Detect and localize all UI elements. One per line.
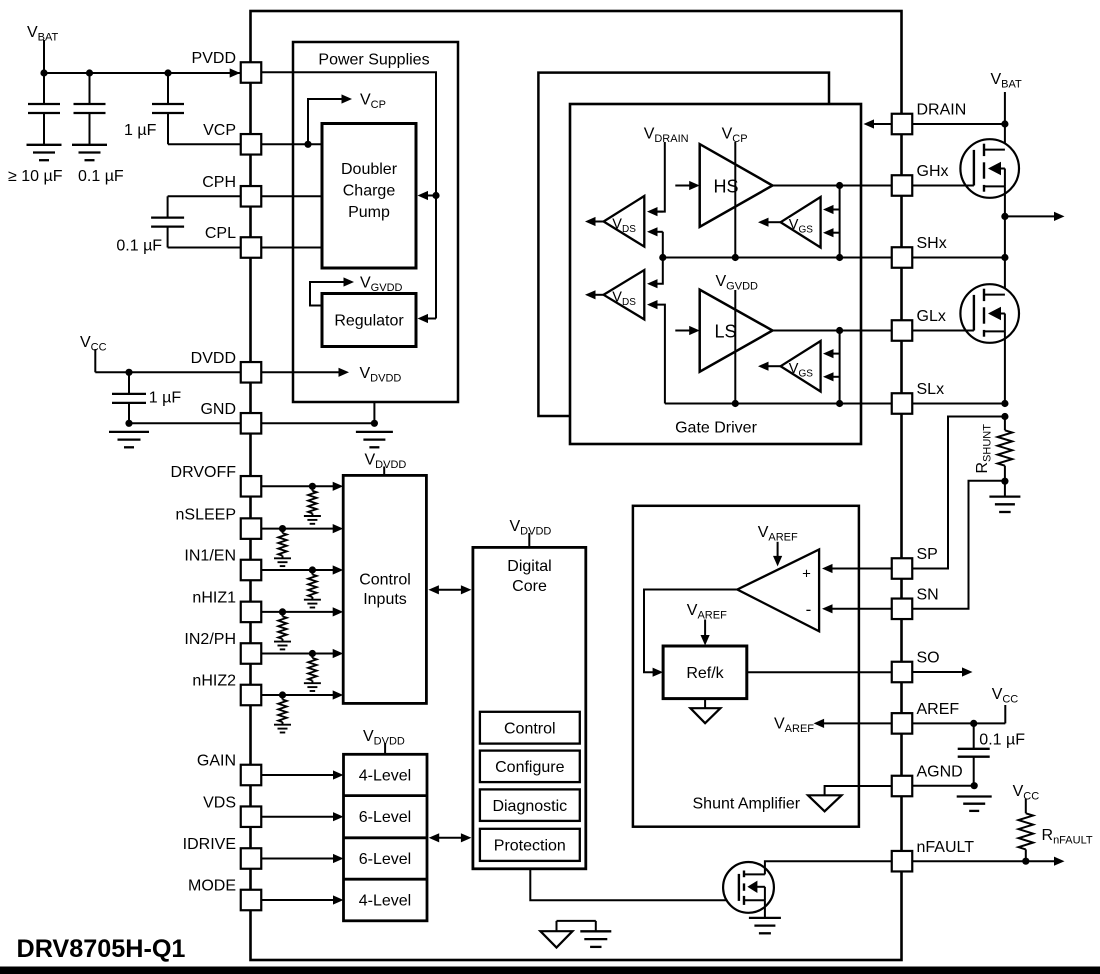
pin GND [241, 413, 262, 434]
wire SP to plus input [832, 568, 892, 570]
node VCC stub [94, 349, 96, 372]
svg-text:HS: HS [714, 177, 739, 197]
Ref/k block [663, 646, 747, 699]
wire GND pin external [129, 422, 240, 424]
wire VBAT to PVDD [44, 72, 240, 74]
svg-text:+: + [802, 566, 811, 583]
svg-text:Protection: Protection [494, 838, 566, 855]
wire VGS HS output arrow [768, 221, 781, 223]
pin nFAULT [892, 851, 913, 872]
junction VBAT-C2 [86, 69, 93, 76]
wire SHx sense vertical [657, 232, 663, 284]
wire HS input arrow [675, 185, 689, 187]
wire VCC to DVDD [95, 371, 240, 373]
pin SO [892, 662, 913, 683]
wire level stack to Digital Core double arrow [437, 837, 462, 839]
svg-text:Control: Control [504, 721, 556, 738]
op-amp HS gate driver [700, 144, 773, 227]
ground DGND triangle [556, 921, 558, 931]
junction RSHUNT bottom [1001, 478, 1008, 485]
wire SHx external [913, 257, 1005, 259]
svg-text:6-Level: 6-Level [359, 809, 411, 826]
pin SN [892, 599, 913, 620]
svg-text:DVDD: DVDD [191, 350, 236, 367]
junction nHIZ1 pulldown [279, 608, 286, 615]
ground Ref/k [704, 699, 706, 709]
resistor pulldown nSLEEP [282, 529, 284, 534]
comparator VGS low-side [781, 341, 821, 392]
wire VDS LS input bottom from SLx [657, 305, 665, 404]
junction DRAIN-VBAT [1001, 120, 1008, 127]
resistor pulldown DRVOFF [311, 486, 313, 491]
wire VDS LS output arrow [594, 294, 604, 296]
wire GLx external [913, 330, 974, 332]
svg-text:SLx: SLx [917, 381, 945, 398]
Protection sub-block [480, 829, 580, 861]
pin CPH [241, 186, 262, 207]
junction PVDD feed [432, 192, 439, 199]
wire SN to minus input [832, 608, 892, 610]
pin PVDD [241, 62, 262, 83]
svg-text:nFAULT: nFAULT [917, 839, 975, 856]
capacitor C5 1uF [128, 372, 130, 394]
wire GLx from LS [773, 330, 892, 332]
pin SP [892, 558, 913, 579]
stub VDVDD to Digital Core [528, 533, 530, 547]
wire VCP into Doubler Charge Pump [262, 143, 323, 145]
Doubler Charge Pump block [322, 124, 416, 269]
junction AGND [971, 782, 978, 789]
stub VBAT right [1004, 92, 1006, 124]
pin AGND [892, 776, 913, 797]
junction SLx [1001, 400, 1008, 407]
junction SLx sense right [836, 400, 843, 407]
svg-text:Gate Driver: Gate Driver [675, 420, 757, 437]
svg-text:GHx: GHx [917, 163, 949, 180]
svg-text:Charge: Charge [343, 183, 396, 200]
svg-text:0.1 µF: 0.1 µF [116, 237, 162, 254]
wire VAREF into op-amp [777, 542, 779, 557]
pin VCP [241, 134, 262, 155]
junction VCC-C5 [125, 369, 132, 376]
wire VDS to level selector [262, 816, 334, 818]
Gate Driver block [570, 104, 861, 444]
pin DRVOFF [241, 476, 262, 497]
wire VDRAIN to VDS monitor [657, 142, 665, 212]
stub VDVDD to level stack [384, 743, 386, 754]
wire VGVDD output arrow [310, 282, 345, 306]
svg-text:0.1 µF: 0.1 µF [78, 168, 124, 185]
junction VBAT-C1 [40, 69, 47, 76]
svg-text:AGND: AGND [917, 764, 963, 781]
pin GHx [892, 175, 913, 196]
junction VCP tap [304, 141, 311, 148]
transistor high-side NMOS [1004, 124, 1006, 150]
junction VBAT-C3 [164, 69, 171, 76]
svg-text:Doubler: Doubler [341, 161, 398, 178]
wire AGND internal [825, 786, 892, 795]
wire DVDD VDVDD arrow [262, 371, 340, 373]
wire VGVDD reference [734, 290, 736, 404]
svg-text:GAIN: GAIN [197, 753, 236, 770]
junction C5-GND [125, 420, 132, 427]
wire CPL into block [262, 247, 323, 249]
svg-text:Inputs: Inputs [363, 591, 407, 608]
junction nFAULT pullup [1022, 858, 1029, 865]
chip boundary DRV8705H-Q1 [251, 11, 902, 960]
comparator VDS low-side [604, 270, 645, 319]
pin MODE [241, 890, 262, 911]
svg-text:4-Level: 4-Level [359, 768, 411, 785]
ground nFAULT source [749, 917, 781, 919]
wire nHIZ1 to Control Inputs [262, 611, 334, 613]
pin DRAIN [892, 114, 913, 135]
wire SLx internal [665, 403, 892, 405]
svg-text:Control: Control [359, 572, 411, 589]
pin CPL [241, 237, 262, 258]
wire SO output arrow [913, 671, 964, 673]
pin GLx [892, 320, 913, 341]
wire GAIN to level selector [262, 774, 334, 776]
wire VDS HS input top [657, 211, 663, 213]
svg-text:CPH: CPH [202, 174, 236, 191]
transistor low-side NMOS [1004, 258, 1006, 295]
wire PVDD into Power Supplies [262, 72, 437, 318]
svg-text:PVDD: PVDD [192, 50, 236, 67]
svg-text:SO: SO [917, 650, 940, 667]
ground pulldown DRVOFF [304, 515, 321, 517]
capacitor 0.1uF AREF [973, 723, 975, 748]
junction RSHUNT top [1001, 413, 1008, 420]
Gate Driver back box [538, 73, 829, 416]
ground GND internal [356, 431, 393, 433]
resistor pulldown IN1/EN [311, 570, 313, 575]
wire VGS LS input bottom [833, 376, 840, 378]
svg-text:IN2/PH: IN2/PH [184, 631, 236, 648]
wire SHx internal [663, 257, 892, 259]
capacitor C2 0.1uF [89, 73, 91, 104]
resistor pulldown IN2/PH [311, 654, 313, 659]
wire nFAULT drain [765, 861, 892, 874]
junction AREF cap [970, 720, 977, 727]
ground under C1 [27, 144, 62, 146]
wire SLx external [913, 403, 1005, 405]
svg-text:Ref/k: Ref/k [686, 665, 724, 682]
svg-text:DRV8705H-Q1: DRV8705H-Q1 [17, 935, 186, 963]
Control sub-block [480, 712, 580, 744]
junction GHx sense [836, 182, 843, 189]
footer bar [0, 967, 1100, 974]
junction VCP-SHx [732, 254, 739, 261]
ground pulldown IN1/EN [304, 599, 321, 601]
ground under C2 [72, 144, 107, 146]
svg-text:Configure: Configure [495, 759, 564, 776]
wire AGND external [913, 785, 975, 787]
resistor RnFAULT [1025, 799, 1027, 813]
svg-text:1 µF: 1 µF [124, 122, 157, 139]
ground pulldown nSLEEP [274, 557, 291, 559]
stub VDVDD to Control Inputs [383, 467, 385, 476]
wire DRAIN into Gate Driver [874, 123, 913, 125]
wire IN1/EN to Control Inputs [262, 569, 334, 571]
capacitor C3 1uF [167, 73, 169, 104]
svg-text:DRVOFF: DRVOFF [171, 464, 237, 481]
svg-text:DRAIN: DRAIN [917, 102, 967, 119]
wire Control Inputs to Digital Core double arrow [437, 589, 462, 591]
pin IDRIVE [241, 848, 262, 869]
svg-text:Pump: Pump [348, 204, 390, 221]
Configure sub-block [480, 751, 580, 783]
wire VAREF into Ref/k [704, 620, 706, 637]
pin SLx [892, 393, 913, 414]
svg-text:SP: SP [917, 546, 938, 563]
junction DRVOFF pulldown [309, 483, 316, 490]
wire GND into chip [262, 422, 375, 424]
wire op-amp output to Ref/k [644, 590, 737, 673]
junction GND [371, 420, 378, 427]
svg-text:Diagnostic: Diagnostic [492, 798, 567, 815]
junction SHx sense [659, 254, 666, 261]
resistor RSHUNT [1004, 417, 1006, 431]
comparator VDS high-side [604, 196, 645, 247]
ground under C5 [109, 431, 149, 433]
wire nFAULT source to ground [764, 900, 766, 918]
pin nHIZ2 [241, 685, 262, 706]
transistor nFAULT open-drain [723, 862, 774, 913]
wire DGND tie [557, 920, 596, 922]
wire DRAIN external [913, 123, 1005, 125]
junction nSLEEP pulldown [279, 525, 286, 532]
svg-text:nHIZ1: nHIZ1 [192, 590, 236, 607]
wire SP tap [913, 417, 1005, 569]
junction IN1/EN pulldown [309, 566, 316, 573]
wire GLx-SLx sense vertical [839, 331, 841, 404]
wire C4 to CPL pin [168, 247, 240, 249]
wire VGS LS input top [833, 353, 840, 355]
wire IN2/PH to Control Inputs [262, 653, 334, 655]
wire GHx from HS [773, 185, 892, 187]
svg-text:SN: SN [917, 587, 939, 604]
wire C3 to VCP pin [168, 143, 240, 145]
wire low-side source to SLx [1004, 331, 1006, 403]
node VBAT stub [43, 40, 45, 73]
4-Level / 6-Level selector stack [344, 754, 428, 921]
svg-text:LS: LS [715, 322, 737, 342]
ground AGND external [957, 795, 992, 797]
junction IN2/PH pulldown [309, 650, 316, 657]
wire VCP reference [734, 142, 736, 258]
wire MODE to level selector [262, 899, 334, 901]
wire CPH into block [262, 195, 323, 197]
wire VDS HS input bottom [657, 231, 663, 233]
pin VDS [241, 806, 262, 827]
pin GAIN [241, 765, 262, 786]
ground pulldown IN2/PH [304, 682, 321, 684]
wire nFAULT external arrow [913, 860, 1056, 862]
resistor pulldown nHIZ1 [282, 612, 284, 617]
junction GLx sense [836, 327, 843, 334]
svg-text:Core: Core [512, 578, 547, 595]
svg-text:AREF: AREF [917, 701, 960, 718]
wire Ref/k output to SO [747, 671, 892, 673]
svg-text:SHx: SHx [917, 235, 947, 252]
junction nHIZ2 pulldown [279, 691, 286, 698]
ground pulldown nHIZ2 [274, 724, 291, 726]
stub Power Supplies to GND [373, 402, 375, 424]
ground AGND triangle [808, 795, 842, 811]
wire SN tap [913, 481, 1005, 609]
svg-text:nHIZ2: nHIZ2 [192, 673, 236, 690]
svg-text:-: - [806, 600, 812, 619]
pin IN1/EN [241, 560, 262, 581]
svg-text:GND: GND [200, 401, 236, 418]
wire GHx external [913, 185, 974, 187]
op-amp LS gate driver [700, 290, 773, 372]
wire GHx-SHx sense vertical [839, 186, 841, 258]
Diagnostic sub-block [480, 789, 580, 821]
ground chassis [580, 930, 611, 932]
junction phase output [1001, 213, 1008, 220]
pin nHIZ1 [241, 602, 262, 623]
svg-text:nSLEEP: nSLEEP [176, 506, 236, 523]
pin IN2/PH [241, 643, 262, 664]
Power Supplies block [293, 42, 458, 402]
ground RSHUNT [989, 495, 1020, 497]
wire VGS LS output arrow [768, 365, 781, 367]
svg-text:≥ 10 µF: ≥ 10 µF [8, 168, 63, 185]
svg-text:6-Level: 6-Level [359, 851, 411, 868]
resistor pulldown nHIZ2 [282, 695, 284, 700]
junction SHx [1001, 254, 1008, 261]
wire VGS HS input bottom [833, 232, 840, 234]
wire AREF external [913, 722, 1006, 724]
wire Protection to nFAULT gate [530, 869, 738, 900]
wire arrow into Doubler Charge Pump [426, 195, 436, 197]
capacitor C4 0.1uF CPH-CPL [168, 195, 240, 197]
svg-text:IDRIVE: IDRIVE [183, 836, 236, 853]
junction SHx sense right [836, 254, 843, 261]
pin AREF [892, 713, 913, 734]
svg-text:Regulator: Regulator [334, 313, 404, 330]
junction VGVDD-SLx [732, 400, 739, 407]
svg-text:GLx: GLx [917, 308, 946, 325]
wire VGS HS input top [833, 209, 840, 211]
svg-text:VDS: VDS [203, 794, 236, 811]
svg-text:1 µF: 1 µF [149, 390, 182, 407]
wire VDS HS output arrow [594, 221, 604, 223]
svg-text:VCP: VCP [203, 122, 236, 139]
wire arrow into Regulator [426, 318, 436, 320]
svg-text:IN1/EN: IN1/EN [184, 548, 236, 565]
svg-text:Shunt Amplifier: Shunt Amplifier [693, 796, 801, 813]
pin SHx [892, 247, 913, 268]
wire AREF to VAREF arrow [824, 722, 892, 724]
wire LS input arrow [675, 330, 689, 332]
capacitor C1 >=10uF [43, 73, 45, 104]
svg-text:CPL: CPL [205, 225, 236, 242]
wire nSLEEP to Control Inputs [262, 528, 334, 530]
comparator VGS high-side [781, 197, 821, 248]
pin nSLEEP [241, 518, 262, 539]
wire phase output arrow [1005, 215, 1055, 217]
op-amp shunt amplifier [737, 550, 819, 632]
wire IDRIVE to level selector [262, 858, 334, 860]
Digital Core block [473, 547, 586, 868]
pin DVDD [241, 362, 262, 383]
Shunt Amplifier block [633, 506, 859, 827]
svg-text:4-Level: 4-Level [359, 893, 411, 910]
Regulator block [322, 294, 416, 347]
wire RSHUNT to ground [1004, 481, 1006, 496]
Control Inputs block [343, 475, 426, 703]
svg-text:MODE: MODE [188, 878, 236, 895]
svg-text:Digital: Digital [507, 558, 551, 575]
wire DRVOFF to Control Inputs [262, 485, 334, 487]
wire nHIZ2 to Control Inputs [262, 694, 334, 696]
ground pulldown nHIZ1 [274, 641, 291, 643]
wire VCP output arrow [308, 99, 343, 144]
wire high-side source to SHx [1004, 186, 1006, 257]
svg-text:Power Supplies: Power Supplies [318, 52, 429, 69]
svg-text:0.1 µF: 0.1 µF [979, 732, 1025, 749]
